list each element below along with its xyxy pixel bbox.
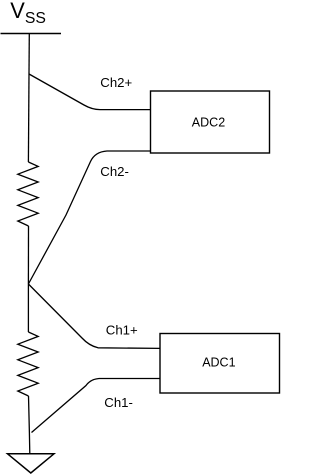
svg-text:Ch1+: Ch1+ <box>106 323 138 338</box>
resistor R1 <box>18 162 38 226</box>
wire Ch1+ : node A to ADC1 pin <box>28 284 160 348</box>
svg-text:Ch2-: Ch2- <box>100 164 129 179</box>
resistor R2 <box>18 332 38 396</box>
wire Ch2+ : branch to ADC2 pin <box>29 74 151 110</box>
svg-text:ADC1: ADC1 <box>202 356 235 370</box>
ADC1 box U1 <box>160 334 280 394</box>
svg-text:ADC2: ADC2 <box>192 116 225 130</box>
wire: R2 to ground <box>29 396 30 454</box>
ADC2 box U2 <box>151 91 270 153</box>
svg-text:VSS: VSS <box>10 0 46 27</box>
wire: R1 to node A <box>27 226 29 284</box>
wire Ch1- : ADC1 pin to ground leg <box>32 379 161 433</box>
wire: node A to resistor R2 <box>27 284 29 332</box>
power rail VSS <box>1 33 62 35</box>
wire Ch2- : ADC2 pin to node A <box>28 151 150 284</box>
wire: rail to Ch2+ branch <box>28 34 30 75</box>
wire: branch to resistor R1 <box>27 74 30 162</box>
ground <box>8 454 55 473</box>
svg-text:Ch1-: Ch1- <box>104 395 133 410</box>
svg-text:Ch2+: Ch2+ <box>100 75 132 90</box>
